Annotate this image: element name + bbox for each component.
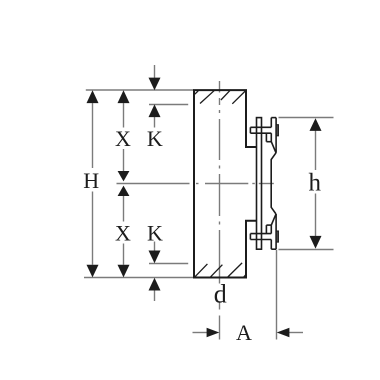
svg-text:d: d (214, 279, 227, 308)
svg-text:K: K (147, 126, 163, 151)
svg-text:h: h (308, 170, 321, 197)
svg-text:X: X (115, 220, 131, 245)
svg-text:K: K (147, 220, 163, 245)
svg-text:X: X (115, 126, 131, 151)
svg-text:A: A (236, 320, 252, 345)
svg-text:H: H (83, 168, 99, 193)
